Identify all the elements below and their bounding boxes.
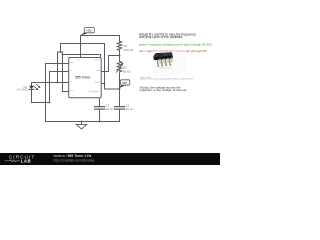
resistor R1 (117, 36, 134, 56)
svg-text:and duty cycle of the oscillat: and duty cycle of the oscillator. (139, 35, 183, 39)
node junction flag-rail (80, 43, 82, 45)
svg-text:Thresh: Thresh (95, 81, 101, 84)
wire right bus x104.5 (104, 44, 106, 90)
node junction ground tap (81, 121, 83, 123)
wire disch bus x108.5 (108, 56, 110, 72)
node junction trig bus y54.5 (62, 54, 64, 56)
wire pin2 y71.5 (50, 71, 69, 73)
wire disch link y55.5 (109, 55, 120, 57)
svg-text:10 nF: 10 nF (106, 107, 114, 111)
svg-text:Disch: Disch (96, 70, 101, 72)
svg-text:+9V: +9V (86, 29, 93, 33)
svg-text:capacitor, is the voltage of i: capacitor, is the voltage of interest. (140, 88, 188, 92)
wire out bus x49.5 (49, 72, 51, 103)
potentiometer R2 (117, 56, 132, 74)
node junction C2 bottom (99, 121, 101, 123)
svg-text:555 Timer: 555 Timer (75, 75, 91, 79)
svg-text:http://circuitlab.com/c6vn3wq: http://circuitlab.com/c6vn3wq (54, 158, 95, 162)
svg-text:Out: Out (70, 69, 74, 72)
node +9V flag (80, 27, 94, 35)
wire trig bus x62.5 (63, 52, 69, 92)
wire LED bottom y102.5 (32, 102, 50, 104)
wire column R2 to C1 (119, 74, 121, 107)
wire disch pin y71.5 (101, 71, 108, 73)
wire bottom rail (46, 121, 120, 123)
node junction cap (119, 88, 121, 90)
wire left outer bus x45.5 (45, 64, 47, 122)
svg-text:LTL-4223: LTL-4223 (17, 88, 28, 92)
node flag cap (118, 80, 130, 89)
wire left VCC bus x57.5 (57, 52, 59, 83)
footer bar (0, 153, 220, 165)
wire rail left drop (60, 44, 62, 53)
wire reset stub x100.5 (100, 55, 102, 58)
capacitor C2 (95, 98, 114, 122)
svg-text:Cont_/Bypass: Cont_/Bypass (87, 90, 99, 93)
svg-text:Reset: Reset (95, 59, 100, 62)
svg-text:Trig: Trig (70, 89, 73, 92)
op-amp U1 555 timer box (69, 58, 102, 98)
ground (76, 122, 86, 130)
node junction thresh (104, 83, 106, 85)
wire pin thresh y83.5 (101, 83, 104, 85)
svg-text:LAB: LAB (21, 159, 31, 164)
wire VCC flag stem to box top pin (80, 35, 82, 57)
wire inner link y52 (58, 51, 63, 53)
node junction rail drop y52 (60, 51, 62, 53)
wire pin1 y63.5 (46, 63, 69, 65)
node junction R1-R2 (119, 55, 121, 57)
svg-text:Vcc: Vcc (70, 81, 73, 83)
wire reset tie y54.5 (63, 54, 101, 56)
svg-text:Gnd: Gnd (70, 62, 74, 64)
wire top rail to R1 (81, 35, 120, 37)
photo DIP-8 chip (152, 52, 186, 76)
node junction out-led cross (49, 82, 51, 84)
svg-text:http://commons.wikimedia.org/w: http://commons.wikimedia.org/wiki/File:S… (140, 78, 193, 81)
svg-text:green = capacitor charging cur: green = capacitor charging current path … (139, 43, 212, 47)
node junction bus pin3 (57, 82, 59, 84)
wire VCC rail (61, 43, 105, 45)
wire cap link y89 (105, 88, 120, 90)
node junction led bottom (49, 102, 51, 104)
LED D1 (17, 83, 41, 103)
capacitor C1 (115, 104, 134, 122)
svg-text:65 kΩ: 65 kΩ (123, 69, 132, 73)
svg-text:cap: cap (122, 81, 127, 85)
svg-text:10 µF: 10 µF (126, 107, 134, 111)
node junction bus pin1 (57, 63, 59, 65)
wire pin3 LED top y82.5 (32, 82, 69, 84)
svg-text:100 kΩ: 100 kΩ (124, 48, 134, 52)
svg-text:Vcc: Vcc (77, 60, 80, 62)
footer logo zigzag (5, 160, 21, 162)
